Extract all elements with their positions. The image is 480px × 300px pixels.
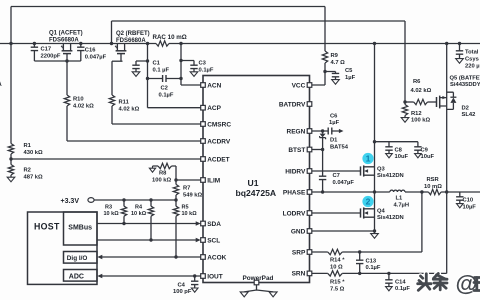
svg-text:Si4435DDY: Si4435DDY <box>450 82 480 88</box>
svg-text:RAC 10 mΩ: RAC 10 mΩ <box>153 34 187 41</box>
svg-text:Sis412DN: Sis412DN <box>377 173 404 179</box>
svg-text:10 mΩ: 10 mΩ <box>424 184 442 190</box>
svg-text:2200pF: 2200pF <box>41 54 61 60</box>
svg-text:0.1µF: 0.1µF <box>366 265 381 271</box>
svg-text:+3.3V: +3.3V <box>61 198 80 205</box>
svg-text:10 Ω: 10 Ω <box>330 265 343 271</box>
svg-text:Csys: Csys <box>465 57 479 63</box>
svg-text:C16: C16 <box>85 48 96 54</box>
svg-text:R6: R6 <box>413 79 421 85</box>
svg-text:ACDRV: ACDRV <box>207 138 231 145</box>
svg-text:10 kΩ: 10 kΩ <box>104 211 120 217</box>
svg-text:C5: C5 <box>345 68 353 74</box>
svg-text:1: 1 <box>366 154 371 164</box>
svg-text:1µF: 1µF <box>329 120 340 126</box>
svg-text:0.1µF: 0.1µF <box>395 286 410 292</box>
svg-text:0.047µF: 0.047µF <box>333 180 355 186</box>
svg-text:BATDRV: BATDRV <box>279 101 306 108</box>
svg-text:R2: R2 <box>24 168 31 174</box>
svg-text:10uF: 10uF <box>421 154 435 160</box>
svg-text:L1: L1 <box>396 196 404 202</box>
svg-text:D2: D2 <box>462 106 469 112</box>
svg-text:C10: C10 <box>463 198 474 204</box>
svg-text:0.1 µF: 0.1 µF <box>153 68 170 74</box>
svg-text:D1: D1 <box>330 138 338 144</box>
svg-text:10 kΩ: 10 kΩ <box>131 211 147 217</box>
svg-text:R4: R4 <box>135 205 143 211</box>
svg-text:SCL: SCL <box>207 237 220 244</box>
svg-text:C8: C8 <box>395 148 403 154</box>
svg-text:GND: GND <box>291 228 306 235</box>
svg-text:R9: R9 <box>331 53 339 59</box>
svg-text:SRN: SRN <box>292 271 306 278</box>
svg-text:Sis412DN: Sis412DN <box>377 215 404 221</box>
svg-text:R7: R7 <box>183 186 190 192</box>
svg-text:Dig I/O: Dig I/O <box>67 255 88 262</box>
svg-text:4.02 kΩ: 4.02 kΩ <box>411 88 432 94</box>
svg-text:C4: C4 <box>178 283 186 289</box>
svg-text:C9: C9 <box>421 148 429 154</box>
svg-text:C6: C6 <box>330 114 338 120</box>
svg-text:ACN: ACN <box>207 82 221 89</box>
svg-text:100 kΩ: 100 kΩ <box>411 118 431 124</box>
svg-text:bq24725A: bq24725A <box>236 188 277 198</box>
svg-text:4.02 kΩ: 4.02 kΩ <box>73 104 94 110</box>
svg-text:R5: R5 <box>182 205 189 211</box>
svg-text:@: @ <box>456 271 478 296</box>
svg-text:C3: C3 <box>199 61 207 67</box>
svg-text:C2: C2 <box>161 86 168 92</box>
svg-text:R1: R1 <box>24 143 32 149</box>
svg-text:LODRV: LODRV <box>283 210 306 217</box>
svg-text:ACDET: ACDET <box>207 156 229 163</box>
svg-text:ADC: ADC <box>69 273 84 280</box>
svg-text:10µF: 10µF <box>463 205 477 211</box>
svg-text:R14 *: R14 * <box>330 258 345 264</box>
svg-text:Total: Total <box>465 50 479 56</box>
svg-text:BTST: BTST <box>288 147 305 154</box>
svg-text:BAT54: BAT54 <box>330 145 349 151</box>
svg-text:HIDRV: HIDRV <box>285 168 306 175</box>
svg-text:FDS6680A: FDS6680A <box>116 38 146 44</box>
svg-text:FDS6680A: FDS6680A <box>49 38 79 44</box>
svg-text:2: 2 <box>366 197 371 207</box>
svg-text:SRP: SRP <box>292 249 306 256</box>
svg-text:C14: C14 <box>395 280 406 286</box>
svg-text:Q1 (ACFET): Q1 (ACFET) <box>49 31 83 37</box>
svg-text:C17: C17 <box>41 47 52 53</box>
svg-text:10 kΩ: 10 kΩ <box>182 211 198 217</box>
svg-text:10uF: 10uF <box>395 154 409 160</box>
svg-text:U1: U1 <box>248 178 259 188</box>
svg-text:R10: R10 <box>73 97 84 103</box>
svg-text:Q5 (BATFET): Q5 (BATFET) <box>450 76 480 82</box>
svg-text:0.047µF: 0.047µF <box>85 55 107 61</box>
svg-text:430 kΩ: 430 kΩ <box>24 150 44 156</box>
svg-text:R8: R8 <box>159 171 167 177</box>
svg-text:0.1µF: 0.1µF <box>159 93 174 99</box>
svg-text:C13: C13 <box>366 259 377 265</box>
svg-text:IOUT: IOUT <box>207 273 223 280</box>
svg-text:ACP: ACP <box>207 105 221 112</box>
svg-text:R12: R12 <box>411 111 422 117</box>
svg-text:4.7µH: 4.7µH <box>394 203 410 209</box>
svg-text:4.02 kΩ: 4.02 kΩ <box>119 107 140 113</box>
svg-text:ACOK: ACOK <box>207 254 226 261</box>
svg-text:220 µF: 220 µF <box>465 64 480 70</box>
svg-text:CMSRC: CMSRC <box>207 121 231 128</box>
svg-text:ILIM: ILIM <box>207 177 220 184</box>
svg-text:RSR: RSR <box>427 177 440 183</box>
svg-text:4.7 Ω: 4.7 Ω <box>331 60 346 66</box>
svg-text:SMBus: SMBus <box>68 224 92 231</box>
svg-text:549 kΩ: 549 kΩ <box>183 193 203 199</box>
svg-text:REGN: REGN <box>287 128 306 135</box>
svg-text:R3: R3 <box>105 205 112 211</box>
svg-text:100 pF: 100 pF <box>173 289 192 295</box>
svg-text:C7: C7 <box>333 173 340 179</box>
svg-text:SDA: SDA <box>207 221 221 228</box>
svg-text:PHASE: PHASE <box>283 189 306 196</box>
svg-text:C1: C1 <box>153 61 161 67</box>
svg-text:487 kΩ: 487 kΩ <box>24 175 44 181</box>
svg-text:VCC: VCC <box>292 82 306 89</box>
svg-text:Q4: Q4 <box>377 209 386 215</box>
svg-text:PowerPad: PowerPad <box>243 275 274 282</box>
svg-text:HOST: HOST <box>34 222 60 232</box>
svg-text:100 kΩ: 100 kΩ <box>152 178 172 184</box>
svg-text:Q2 (RBFET): Q2 (RBFET) <box>116 31 150 37</box>
svg-text:R15 *: R15 * <box>330 280 345 286</box>
svg-text:R11: R11 <box>119 100 130 106</box>
svg-text:0.1µF: 0.1µF <box>199 68 214 74</box>
svg-text:SL42: SL42 <box>462 112 476 118</box>
svg-text:1µF: 1µF <box>345 75 356 81</box>
svg-text:Q3: Q3 <box>377 167 386 173</box>
svg-text:7.5 Ω: 7.5 Ω <box>330 287 345 293</box>
